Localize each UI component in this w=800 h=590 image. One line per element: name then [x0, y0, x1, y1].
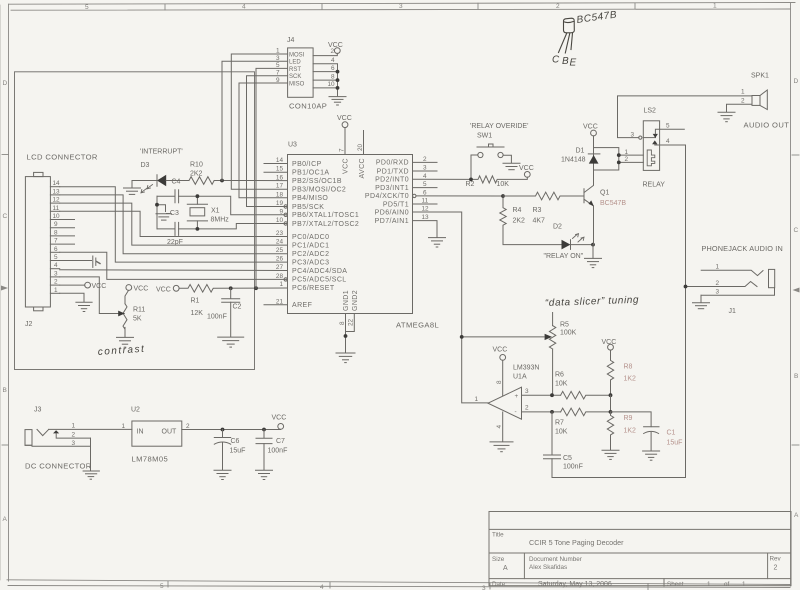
svg-text:MOSI: MOSI	[289, 52, 305, 58]
svg-text:U3: U3	[288, 142, 297, 149]
wire J4 pin3 LED down to R10 node	[222, 61, 288, 180]
svg-text:LM393N: LM393N	[513, 365, 539, 372]
U3 left stubs pins 14,15	[264, 164, 288, 173]
svg-text:D1: D1	[576, 148, 585, 155]
svg-text:27: 27	[276, 264, 284, 271]
svg-text:1: 1	[742, 581, 746, 588]
svg-text:PB4/MISO: PB4/MISO	[292, 195, 328, 202]
svg-text:Title: Title	[492, 532, 504, 539]
svg-text:VCC: VCC	[156, 286, 171, 293]
svg-text:VCC: VCC	[337, 115, 352, 122]
svg-text:contrast: contrast	[97, 344, 145, 358]
wire LCD5	[60, 260, 92, 262]
wire D3 cathode to ground	[132, 181, 157, 188]
J4 pin numbers	[276, 48, 335, 89]
svg-text:J1: J1	[729, 308, 737, 315]
svg-text:3: 3	[54, 270, 58, 277]
svg-text:2: 2	[525, 405, 529, 412]
wire J4 pin7 SCK to PB5	[247, 76, 288, 207]
title block	[489, 512, 791, 587]
svg-text:PC1/ADC1: PC1/ADC1	[292, 242, 329, 249]
capacitor C3 lower 22pF	[175, 222, 179, 235]
resistor R6 10K	[555, 372, 611, 400]
svg-text:CCIR 5 Tone Paging Decoder: CCIR 5 Tone Paging Decoder	[529, 538, 624, 547]
svg-text:PD6/AIN0: PD6/AIN0	[375, 210, 409, 217]
svg-text:R2: R2	[466, 181, 475, 188]
svg-text:B: B	[3, 387, 7, 394]
transistor Q1 BC547B	[584, 170, 626, 245]
svg-text:PB3/MOSI/OC2: PB3/MOSI/OC2	[292, 187, 346, 194]
svg-text:OUT: OUT	[162, 429, 178, 436]
svg-text:8: 8	[496, 380, 503, 384]
power VCC (R11)	[126, 285, 148, 293]
svg-text:R6: R6	[555, 372, 564, 379]
svg-text:BC547B: BC547B	[600, 200, 626, 207]
U3 right stubs pins 2,3,5,11	[413, 162, 438, 204]
svg-text:VCC: VCC	[519, 165, 534, 172]
wire op-amp pin4 to ground	[496, 412, 503, 442]
svg-text:PB0/ICP: PB0/ICP	[292, 161, 322, 168]
capacitor C2 100nF	[207, 288, 242, 337]
svg-text:PB1/OC1A: PB1/OC1A	[292, 170, 329, 177]
svg-text:LS2: LS2	[644, 108, 657, 115]
wire AREF pin21 stub	[264, 304, 288, 306]
svg-text:MISO: MISO	[289, 82, 305, 88]
frame lines	[9, 3, 796, 5]
svg-text:19: 19	[276, 200, 284, 207]
U3 pin bubbles	[284, 194, 416, 281]
crystal X1 8MHz	[187, 196, 229, 229]
svg-text:14: 14	[276, 157, 284, 164]
svg-text:22: 22	[348, 318, 355, 326]
svg-text:10: 10	[53, 213, 61, 220]
svg-text:PC6/RESET: PC6/RESET	[292, 285, 335, 292]
wire LCD14 to PC3	[60, 187, 288, 262]
power VCC (U3 pin7)	[337, 115, 352, 155]
wire R4 to D2	[503, 229, 562, 245]
svg-text:2: 2	[741, 98, 745, 105]
svg-text:12: 12	[53, 197, 61, 204]
U3 left pin names	[292, 161, 359, 309]
svg-text:U2: U2	[131, 407, 140, 414]
wire pin3 row	[522, 394, 561, 396]
svg-text:D: D	[3, 80, 8, 87]
svg-text:2K2: 2K2	[190, 171, 203, 178]
svg-text:2K2: 2K2	[513, 218, 526, 225]
svg-text:GND2: GND2	[352, 290, 359, 311]
svg-text:J2: J2	[25, 321, 33, 328]
potentiometer R5 100K	[549, 313, 576, 396]
wire relay pin4 to audio line	[660, 138, 686, 477]
svg-text:LCD CONNECTOR: LCD CONNECTOR	[27, 153, 98, 162]
svg-text:R11: R11	[133, 307, 145, 314]
svg-text:6: 6	[331, 65, 335, 72]
svg-text:A: A	[3, 516, 8, 523]
svg-text:26: 26	[276, 256, 284, 263]
svg-text:5: 5	[666, 123, 670, 130]
wire crystal left leg	[156, 196, 158, 229]
ground (U3)	[336, 353, 355, 363]
svg-text:23: 23	[276, 230, 284, 237]
svg-text:DC CONNECTOR: DC CONNECTOR	[25, 462, 92, 471]
svg-text:of: of	[724, 581, 730, 588]
capacitor on LCD5	[93, 256, 100, 267]
resistor R8 1K2	[607, 350, 636, 395]
svg-text:3: 3	[716, 289, 720, 296]
svg-text:2: 2	[556, 3, 560, 10]
svg-text:6: 6	[423, 189, 427, 196]
svg-text:PD0/RXD: PD0/RXD	[376, 160, 409, 167]
power VCC (J4)	[328, 42, 343, 53]
svg-text:10K: 10K	[555, 429, 568, 436]
svg-text:10K: 10K	[497, 181, 510, 188]
svg-text:8: 8	[54, 229, 58, 236]
svg-text:2: 2	[72, 432, 76, 439]
resistor R10 2K2	[189, 162, 214, 185]
svg-text:9: 9	[279, 208, 283, 215]
svg-text:21: 21	[276, 298, 284, 305]
svg-text:100nF: 100nF	[563, 464, 583, 471]
wire PD2/INT0 pin4 to R2 node	[413, 178, 472, 180]
svg-text:2: 2	[716, 280, 720, 287]
svg-text:4: 4	[54, 262, 58, 269]
ground (C2)	[218, 337, 244, 347]
microcontroller U3 ATMEGA8L	[288, 142, 440, 330]
wire D3 to R10 with C4 text	[166, 180, 189, 182]
svg-text:R5: R5	[560, 322, 569, 329]
J4 left pin names	[289, 52, 305, 87]
wire relay pin3 to speaker	[618, 96, 753, 138]
svg-text:12K: 12K	[191, 310, 204, 317]
power VCC (R1/reset)	[156, 285, 179, 293]
wire J4 pins 4,6,8,10 to ground	[313, 64, 337, 96]
svg-text:-: -	[515, 409, 517, 416]
svg-text:+: +	[515, 393, 519, 400]
U3 right pin numbers	[422, 156, 430, 221]
svg-text:10: 10	[328, 81, 336, 88]
ground (C6)	[214, 470, 231, 479]
svg-text:5: 5	[160, 583, 164, 590]
wire LCD13 to PC2	[60, 195, 288, 254]
ground (J3)	[83, 471, 99, 479]
U3 rotated top/bottom pin names	[343, 158, 367, 311]
ground (SW1)	[503, 163, 520, 169]
svg-text:5: 5	[85, 4, 89, 11]
power VCC (LCD pin2)	[85, 282, 107, 290]
svg-text:6: 6	[54, 246, 58, 253]
svg-text:D: D	[794, 78, 799, 85]
svg-text:AUDIO OUT: AUDIO OUT	[744, 121, 790, 130]
wire J4 pin1 MOSI to PB3	[231, 54, 287, 189]
svg-text:3: 3	[423, 165, 427, 172]
op-amp U1A LM393N	[475, 365, 540, 420]
resistor R1 12K	[179, 285, 213, 318]
ground (pin13)	[429, 238, 446, 247]
svg-text:SCK: SCK	[289, 74, 301, 80]
wire AVCC pin20 stub	[357, 131, 364, 155]
svg-text:ATMEGA8L: ATMEGA8L	[396, 321, 439, 330]
svg-text:AVCC: AVCC	[359, 158, 366, 179]
svg-text:Size: Size	[492, 556, 505, 563]
svg-text:"RELAY ON": "RELAY ON"	[544, 253, 584, 260]
junction	[220, 179, 224, 183]
svg-text:4: 4	[320, 584, 324, 590]
ground (LCD pin1)	[76, 302, 92, 311]
phonejack J1	[686, 264, 775, 316]
wire LCD2 to VCC	[60, 284, 85, 286]
svg-text:2: 2	[186, 423, 190, 430]
wire D2 to emitter node	[571, 244, 594, 246]
U3 right pin names	[365, 160, 409, 225]
svg-text:11: 11	[53, 205, 60, 212]
wire relay pin5 stub	[660, 123, 685, 130]
svg-text:C7: C7	[276, 438, 285, 445]
svg-text:3: 3	[399, 3, 403, 10]
svg-text:VCC: VCC	[92, 283, 107, 290]
svg-text:C5: C5	[563, 455, 572, 462]
svg-text:R9: R9	[624, 415, 633, 422]
svg-text:R7: R7	[555, 420, 564, 427]
svg-text:4K7: 4K7	[533, 218, 546, 225]
svg-text:Document Number: Document Number	[529, 556, 582, 563]
svg-text:RELAY: RELAY	[643, 182, 666, 189]
svg-text:25: 25	[276, 247, 284, 254]
wire D1 box to relay coil pins 1,2	[619, 149, 644, 163]
svg-text:1: 1	[122, 423, 126, 430]
regulator U2 LM78M05	[122, 407, 191, 464]
svg-text:PD1/TXD: PD1/TXD	[377, 168, 409, 175]
svg-text:C2: C2	[233, 304, 242, 311]
svg-text:D3: D3	[141, 162, 150, 169]
svg-text:R3: R3	[533, 207, 542, 214]
svg-text:2: 2	[54, 279, 58, 286]
diode D1 1N4148 with box	[561, 148, 619, 171]
wire speaker pin2 to ground	[727, 104, 753, 112]
svg-text:PC4/ADC4/SDA: PC4/ADC4/SDA	[292, 268, 347, 275]
svg-text:8: 8	[339, 321, 346, 325]
section boundary box (LCD/MCU section)	[15, 72, 255, 370]
svg-text:5: 5	[423, 181, 427, 188]
crystal loop top rail to XTAL1	[157, 196, 288, 215]
svg-text:LM78M05: LM78M05	[132, 455, 169, 464]
crystal loop bottom rail to XTAL2	[157, 224, 288, 229]
svg-text:PD5/T1: PD5/T1	[383, 201, 409, 208]
svg-text:X1: X1	[211, 208, 220, 215]
wire J4 pin9 MISO to PB4	[239, 83, 288, 198]
svg-text:PB5/SCK: PB5/SCK	[292, 204, 324, 211]
wire RST from J4 pin5 down to reset node	[256, 68, 288, 288]
capacitor C5 100nF	[544, 412, 583, 478]
svg-text:VCC: VCC	[272, 415, 287, 422]
power VCC (R2)	[519, 165, 534, 177]
svg-text:PD2/INT0: PD2/INT0	[375, 177, 409, 184]
svg-text:1: 1	[713, 2, 717, 9]
svg-text:C: C	[552, 55, 560, 66]
svg-text:C4: C4	[172, 178, 181, 185]
wire J3 pins 2,3 to ground	[90, 438, 92, 471]
svg-text:7: 7	[54, 238, 58, 245]
power VCC (U2 out)	[272, 415, 287, 430]
svg-text:4: 4	[331, 57, 335, 64]
ground (R9)	[602, 450, 619, 459]
relay LS2	[643, 108, 666, 189]
wire LCD4 to PC4	[60, 269, 288, 272]
svg-text:VCC: VCC	[134, 286, 149, 293]
capacitor C3 upper 22pF	[175, 190, 179, 203]
svg-text:1: 1	[72, 423, 76, 430]
ground (U1A)	[490, 442, 513, 452]
svg-text:PB6/XTAL1/TOSC1: PB6/XTAL1/TOSC1	[292, 212, 359, 219]
wire J1 sleeve to ground	[700, 295, 702, 302]
svg-text:1: 1	[54, 287, 58, 294]
wire PD4 pin6 to R3/R4 node	[416, 195, 503, 197]
capacitor C1 15uF	[611, 412, 683, 451]
svg-text:PD7/AIN1: PD7/AIN1	[375, 218, 409, 225]
svg-text:PD4/XCK/T0: PD4/XCK/T0	[365, 193, 409, 200]
svg-text:Q1: Q1	[600, 190, 609, 197]
svg-text:SPK1: SPK1	[751, 73, 769, 80]
power VCC (R8)	[602, 339, 617, 350]
ground (speaker)	[718, 112, 735, 121]
resistor R4 2K2	[500, 196, 525, 229]
svg-text:5: 5	[54, 254, 58, 261]
power VCC (D1)	[583, 124, 598, 148]
svg-text:A: A	[503, 565, 508, 572]
svg-text:1: 1	[279, 281, 283, 288]
resistor R2 10K	[466, 176, 528, 188]
svg-text:16: 16	[276, 174, 284, 181]
svg-text:RST: RST	[289, 67, 301, 73]
svg-text:PC3/ADC3: PC3/ADC3	[292, 259, 329, 266]
capacitor C7 100nF	[256, 430, 287, 471]
svg-text:1N4148: 1N4148	[561, 157, 586, 164]
svg-text:10K: 10K	[555, 381, 568, 388]
switch SW1	[471, 133, 511, 180]
svg-text:GND1: GND1	[343, 290, 350, 311]
J2 pin stubs 14..1	[50, 187, 74, 294]
wire LCD3 to R11 wiper	[60, 277, 117, 314]
svg-text:100nF: 100nF	[207, 314, 227, 321]
svg-text:R4: R4	[513, 207, 522, 214]
wire ground tap	[157, 205, 166, 212]
svg-text:3: 3	[72, 440, 76, 447]
resistor R3 4K7	[503, 192, 584, 224]
svg-text:1K2: 1K2	[624, 376, 637, 383]
wire LCD1 to ground	[60, 293, 84, 302]
svg-text:13: 13	[53, 188, 61, 195]
U3 left pin numbers	[276, 157, 284, 305]
svg-text:R10: R10	[190, 162, 203, 169]
svg-text:4: 4	[423, 173, 427, 180]
wire pin2 row	[522, 411, 561, 413]
svg-text:Alex Skafidas: Alex Skafidas	[529, 564, 567, 571]
svg-text:B: B	[562, 56, 569, 67]
potentiometer R11 5K	[117, 290, 145, 337]
svg-text:2: 2	[625, 156, 629, 163]
svg-text:2: 2	[774, 565, 778, 572]
connector J4 CON10AP	[287, 37, 327, 111]
svg-text:1: 1	[625, 149, 629, 156]
svg-text:E: E	[570, 58, 577, 69]
power VCC (U1A)	[493, 347, 508, 397]
svg-text:Rev: Rev	[770, 556, 782, 563]
ground (J4)	[329, 97, 346, 105]
svg-text:15uF: 15uF	[230, 448, 246, 455]
relay pin3 bubble	[631, 131, 642, 139]
svg-text:C1: C1	[667, 430, 676, 437]
svg-text:1: 1	[741, 89, 745, 96]
ground (crystal)	[156, 214, 172, 220]
svg-text:15uF: 15uF	[667, 440, 683, 447]
svg-text:LED: LED	[289, 60, 301, 66]
svg-text:8: 8	[331, 73, 335, 80]
ground (Q1 emitter)	[585, 245, 602, 268]
svg-text:Saturday, May 13, 2006: Saturday, May 13, 2006	[538, 581, 612, 588]
svg-text:3: 3	[525, 388, 529, 395]
svg-text:PB2/SS/OC1B: PB2/SS/OC1B	[292, 178, 342, 185]
svg-text:9: 9	[54, 221, 58, 228]
svg-text:22pF: 22pF	[167, 239, 183, 246]
wire GND1/GND2 to ground	[339, 314, 355, 353]
resistor R9 1K2	[607, 412, 636, 450]
wire wiper from comparator output	[462, 336, 544, 338]
svg-text:D2: D2	[553, 224, 562, 231]
wire LCD11 to PC0	[60, 211, 288, 236]
handwritten transistor sketch BC547B	[559, 18, 575, 53]
svg-text:R8: R8	[624, 364, 633, 371]
svg-text:18: 18	[276, 191, 284, 198]
svg-text:–C3: –C3	[166, 210, 179, 217]
wire LCD12 to PC1	[60, 203, 288, 245]
svg-text:14: 14	[53, 180, 61, 187]
ground (R11)	[117, 337, 134, 347]
svg-text:J3: J3	[34, 407, 42, 414]
ground (J1)	[693, 303, 710, 309]
svg-text:4: 4	[666, 138, 670, 145]
wire U2 out to VCC	[182, 429, 281, 431]
svg-text:10: 10	[276, 217, 284, 224]
svg-text:100K: 100K	[560, 330, 577, 337]
svg-text:1: 1	[475, 396, 479, 403]
connector J2 (LCD CONNECTOR)	[25, 172, 50, 310]
svg-text:100nF: 100nF	[268, 448, 288, 455]
wire R8 node to R9 node	[610, 395, 612, 412]
svg-text:VCC: VCC	[343, 158, 350, 174]
svg-text:J4: J4	[287, 37, 295, 44]
svg-text:1: 1	[707, 581, 711, 588]
capacitor C6 15uF	[214, 430, 245, 471]
svg-text:24: 24	[276, 239, 284, 246]
svg-text:AREF: AREF	[292, 302, 312, 309]
LED D3	[141, 162, 167, 193]
svg-text:VCC: VCC	[493, 347, 508, 354]
svg-text:PD3/INT1: PD3/INT1	[375, 185, 409, 192]
svg-text:PC0/ADC0: PC0/ADC0	[292, 234, 329, 241]
svg-text:BC547B: BC547B	[576, 9, 618, 26]
svg-text:R1: R1	[191, 298, 200, 305]
svg-text:VCC: VCC	[583, 124, 598, 131]
svg-text:2: 2	[331, 48, 335, 55]
svg-text:'RELAY OVERIDE': 'RELAY OVERIDE'	[470, 123, 528, 130]
svg-text:8MHz: 8MHz	[211, 217, 230, 224]
svg-text:B: B	[794, 373, 798, 380]
wire R10 to PB2 pin16	[214, 180, 287, 182]
svg-text:'INTERRUPT': 'INTERRUPT'	[140, 149, 183, 156]
ground (C7)	[256, 470, 273, 479]
svg-text:Date:: Date:	[492, 581, 507, 588]
ground (D3)	[124, 188, 141, 194]
svg-text:4: 4	[242, 4, 246, 11]
